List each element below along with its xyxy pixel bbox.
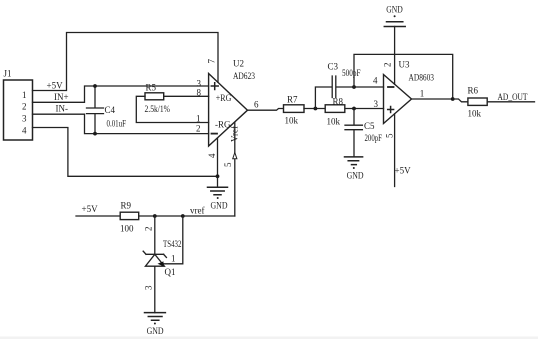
resistor R7: [284, 105, 305, 113]
node junction pin4/J1 ground: [216, 174, 220, 178]
svg-text:0.01uF: 0.01uF: [107, 119, 127, 129]
node junction C4 top: [93, 84, 97, 88]
capacitor C5: [345, 109, 362, 157]
arrowhead Q1 ref: [158, 261, 164, 266]
svg-text:6: 6: [254, 100, 259, 110]
node junction vref/Q1 ref: [181, 214, 185, 218]
svg-text:AD8603: AD8603: [409, 73, 435, 83]
svg-text:vref: vref: [190, 205, 205, 215]
svg-text:R9: R9: [121, 200, 132, 210]
svg-text:Q1: Q1: [165, 267, 176, 277]
wire R7 to R8: [304, 108, 325, 110]
op-amp U2 AD623: [209, 74, 248, 147]
svg-text:1: 1: [22, 90, 27, 100]
svg-text:3: 3: [374, 99, 379, 109]
svg-text:2: 2: [22, 102, 27, 112]
scan edge strip: [0, 337, 538, 339]
svg-text:3: 3: [143, 285, 153, 290]
U2 minus input symbol: [212, 133, 218, 135]
svg-text:U2: U2: [233, 59, 244, 69]
wire feedback U3 output to pin4: [354, 54, 453, 99]
op-amp U3 AD8603: [384, 75, 412, 124]
svg-text:7: 7: [207, 59, 217, 64]
svg-text:C3: C3: [328, 62, 339, 72]
svg-text:200pF: 200pF: [365, 133, 383, 143]
node junction C4 bottom: [93, 132, 97, 136]
node junction vref/Q1 cathode: [153, 214, 157, 218]
resistor R8: [325, 105, 345, 113]
connector J1: [4, 80, 33, 140]
wire U3 pin2 to top ground: [394, 27, 396, 85]
svg-text:R7: R7: [287, 94, 298, 104]
svg-text:2.5k/1%: 2.5k/1%: [145, 104, 171, 114]
wire IN+ net: J1 pin2 to U2 pin3 rail: [33, 86, 209, 102]
wire U2 pin5 to vref rail: [234, 123, 236, 217]
svg-text:AD623: AD623: [233, 71, 255, 81]
ground symbol under Q1: [145, 313, 166, 325]
capacitor C3 with riser wire: [315, 76, 383, 109]
node junction after R7: [314, 107, 318, 111]
U3 minus input symbol: [388, 86, 394, 88]
svg-text:5: 5: [385, 133, 395, 138]
U2 plus input symbol: [211, 83, 218, 90]
svg-text:R8: R8: [333, 97, 344, 107]
wire U3 pin5 to +5V: [394, 114, 396, 187]
svg-text:4: 4: [207, 153, 217, 158]
svg-text:J1: J1: [4, 69, 12, 79]
node junction U3 output: [451, 97, 455, 101]
resistor R9: [120, 212, 139, 219]
wire IN- net: J1 pin3 to U2 pin2 rail: [33, 114, 209, 133]
node junction after R8: [352, 107, 356, 111]
node junction C3 right / U3 pin4: [352, 85, 356, 89]
svg-text:10k: 10k: [327, 117, 341, 127]
svg-text:R6: R6: [468, 86, 479, 96]
svg-text:5: 5: [223, 162, 233, 167]
svg-text:IN+: IN+: [54, 92, 69, 102]
svg-text:+RG: +RG: [216, 93, 232, 103]
wire R6 to AD OUT: [487, 101, 534, 103]
shunt reference Q1 TS432: [143, 216, 166, 313]
svg-text:2: 2: [143, 227, 153, 232]
svg-text:4: 4: [373, 76, 378, 86]
svg-text:AD_OUT: AD_OUT: [498, 92, 528, 102]
svg-text:10k: 10k: [285, 116, 299, 126]
wire Q1 reference pin loop: [163, 216, 183, 264]
svg-text:1: 1: [420, 88, 425, 98]
svg-text:GND: GND: [386, 5, 403, 15]
svg-text:1: 1: [171, 254, 176, 264]
svg-text:IN-: IN-: [56, 104, 69, 114]
svg-text:1: 1: [196, 114, 201, 124]
wire U2 output to R7: [248, 109, 284, 111]
svg-text:+5V: +5V: [82, 204, 99, 214]
svg-text:10k: 10k: [468, 109, 482, 119]
svg-text:100: 100: [120, 223, 134, 233]
wire U3 output: [412, 98, 453, 100]
wire U2 pin4 to ground: [217, 138, 219, 187]
capacitor C4: [87, 86, 104, 134]
wire GND net: J1 pin4 to U2 pin4: [33, 128, 218, 177]
ground symbol under C5: [345, 157, 363, 169]
ground symbol under U2: [208, 187, 228, 199]
svg-text:U3: U3: [399, 60, 410, 70]
svg-text:2: 2: [383, 63, 393, 68]
svg-text:500pF: 500pF: [342, 68, 361, 78]
resistor R5: [136, 93, 208, 123]
svg-text:3: 3: [22, 114, 27, 124]
wire jog to R6: [453, 99, 468, 102]
wire R8 to U3 pin3: [346, 108, 384, 110]
svg-text:GND: GND: [211, 200, 228, 210]
svg-text:GND: GND: [347, 171, 364, 181]
svg-text:C4: C4: [105, 105, 116, 115]
svg-text:2: 2: [196, 123, 201, 133]
svg-text:+5V: +5V: [47, 81, 64, 91]
ground symbol above U3 (flipped): [384, 15, 405, 26]
svg-text:4: 4: [22, 125, 27, 135]
svg-text:8: 8: [197, 87, 202, 97]
svg-text:C5: C5: [364, 121, 375, 131]
resistor R6: [468, 98, 487, 105]
wire +5V net: J1 pin1 to U2 pin7: [33, 33, 219, 91]
svg-text:GND: GND: [147, 326, 164, 336]
U3 plus input symbol: [388, 107, 394, 113]
svg-text:R5: R5: [146, 83, 157, 93]
svg-text:TS432: TS432: [163, 239, 182, 249]
svg-text:+5V: +5V: [395, 166, 412, 176]
arrow on vref wire: [233, 153, 237, 159]
wire vref rail: [76, 215, 235, 217]
svg-text:Vref: Vref: [229, 126, 239, 142]
